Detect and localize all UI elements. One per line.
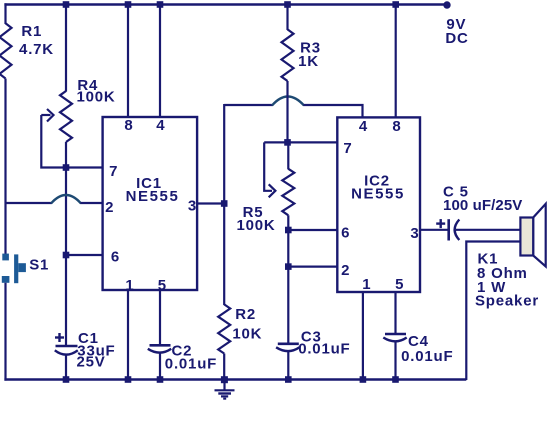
label R4 100K <box>76 77 115 106</box>
pushbutton S1 <box>2 254 26 284</box>
svg-text:2: 2 <box>105 199 113 216</box>
wire column down from pin7 node <box>65 168 67 255</box>
wire hop over R4 column <box>51 195 81 204</box>
label R2 10K <box>232 306 262 343</box>
node junction top rail at R4 <box>63 1 70 8</box>
svg-text:100 uF/25V: 100 uF/25V <box>443 197 522 214</box>
wire IC2 pin 8 column <box>395 5 397 118</box>
wire IC2 pin 1 column <box>362 292 364 380</box>
wiper arrow R5 <box>264 142 275 197</box>
wire IC2 pin 7 <box>264 141 337 143</box>
svg-text:1: 1 <box>125 277 133 294</box>
svg-text:8: 8 <box>392 118 400 135</box>
svg-text:Speaker: Speaker <box>475 293 539 310</box>
svg-text:6: 6 <box>111 249 119 266</box>
node junction top rail IC1 pin4 <box>157 1 164 8</box>
svg-text:2: 2 <box>341 262 349 279</box>
label R3 1K <box>298 39 321 70</box>
wire IC1 pin 6 <box>66 254 103 256</box>
node junction bottom rail C1 <box>63 376 70 383</box>
label C4 0.01uF <box>401 333 453 365</box>
svg-text:S1: S1 <box>29 256 49 273</box>
wire across to IC2 pin4 left part <box>224 104 272 106</box>
label C3 0.01uF <box>298 329 350 358</box>
svg-text:R2: R2 <box>235 306 256 323</box>
wire top power rail <box>4 3 447 5</box>
wire left rail lower segment <box>4 283 6 381</box>
wire IC2 pin 3 <box>420 229 448 231</box>
capacitor C3 <box>276 344 299 380</box>
node junction bottom rail C2 <box>157 376 164 383</box>
wire across to IC2 pin4 right part <box>304 105 363 117</box>
node junction pin6 column <box>63 252 70 259</box>
node junction top rail R3 <box>284 1 291 8</box>
wire R2 bottom <box>223 354 225 381</box>
svg-text:3: 3 <box>188 197 196 214</box>
label K1 8 Ohm 1W Speaker <box>475 251 539 310</box>
wire C3 column <box>287 267 289 344</box>
wire R5 top <box>287 142 289 169</box>
svg-text:0.01uF: 0.01uF <box>165 356 217 373</box>
svg-text:DC: DC <box>445 30 468 47</box>
op-amp IC1 NE555 box <box>103 117 198 290</box>
wire bottom ground rail <box>4 378 466 380</box>
op-amp IC2 NE555 box <box>337 117 420 292</box>
resistor R1 <box>0 23 12 78</box>
wire pin3 node up <box>223 104 225 204</box>
label IC2 NE555 <box>351 172 405 202</box>
wire IC1 pin 2 right part <box>81 202 103 204</box>
node 9V supply terminal <box>443 1 450 8</box>
svg-text:5: 5 <box>395 276 403 293</box>
label C5 plus <box>436 219 445 228</box>
wire speaker return <box>466 242 520 381</box>
node junction R5 pin6 <box>285 227 292 234</box>
svg-text:1K: 1K <box>298 53 319 70</box>
resistor R3 <box>282 29 294 81</box>
label C1 plus <box>55 333 64 342</box>
wire IC2 pin 6 <box>288 229 337 231</box>
node junction R3 R5 pin7 <box>284 139 291 146</box>
svg-text:10K: 10K <box>232 326 262 343</box>
wire IC1 pin 7 <box>66 166 103 168</box>
speaker K1 <box>520 204 545 267</box>
label IC2 pin numbers <box>341 118 419 293</box>
wire IC2 pin 2 <box>288 266 337 268</box>
wire IC1 pin 4 column <box>159 5 161 118</box>
wire IC2 pin 5 column <box>394 292 396 334</box>
node junction pin3 R2 <box>221 200 228 207</box>
node junction bottom rail pin1 <box>125 376 132 383</box>
capacitor C2 <box>148 345 171 380</box>
label IC1 pin numbers <box>105 117 196 294</box>
node junction top rail IC2 pin8 <box>392 1 399 8</box>
svg-text:100K: 100K <box>76 88 115 105</box>
svg-text:25V: 25V <box>77 354 106 371</box>
capacitor C1 <box>55 346 78 380</box>
wire R4 top column <box>65 5 67 92</box>
svg-text:0.01uF: 0.01uF <box>401 348 453 365</box>
svg-text:6: 6 <box>341 225 349 242</box>
label IC1 NE555 <box>126 175 180 205</box>
capacitor C5 <box>449 219 460 240</box>
node junction bottom rail ground <box>221 376 228 383</box>
node junction R4 wiper pin7 <box>63 164 70 171</box>
label R1 4.7K <box>19 23 54 58</box>
node junction bottom rail C4 <box>392 376 399 383</box>
svg-text:7: 7 <box>343 140 351 157</box>
wire IC1 pin 3 <box>197 202 225 204</box>
wire left rail middle segment <box>4 79 6 255</box>
label C2 0.01uF <box>165 342 217 372</box>
svg-text:4: 4 <box>359 118 368 135</box>
svg-text:1: 1 <box>362 276 370 293</box>
svg-text:8: 8 <box>124 117 132 134</box>
label R5 100K <box>236 204 275 234</box>
wire R2 column <box>223 204 225 306</box>
svg-text:NE555: NE555 <box>126 188 180 205</box>
svg-text:R1: R1 <box>21 23 42 40</box>
node junction bottom rail IC2 pin1 <box>360 376 367 383</box>
wire hop over R3 column <box>272 97 304 106</box>
wire IC1 pin 1 column <box>127 290 129 380</box>
wire C5 to speaker <box>456 229 521 231</box>
potentiometer R4 <box>60 91 72 142</box>
wire column pin6 to pin2 <box>287 230 289 267</box>
wire R3 top column <box>286 5 288 31</box>
wire C1 column <box>65 255 67 346</box>
wire IC1 pin 8 column <box>127 5 129 118</box>
ground symbol <box>215 380 235 399</box>
svg-text:4: 4 <box>156 117 165 134</box>
wire R4 bottom to node <box>65 142 67 168</box>
svg-text:4.7K: 4.7K <box>19 41 54 58</box>
potentiometer R5 <box>282 169 294 216</box>
node junction top rail IC1 pin8 <box>125 1 132 8</box>
wire IC1 pin 5 column <box>159 290 161 345</box>
capacitor C4 <box>383 334 406 380</box>
label C1 33uF 25V <box>77 330 116 371</box>
wire IC1 pin 2 left part <box>6 202 52 204</box>
svg-text:7: 7 <box>109 163 117 180</box>
wiper arrow R4 <box>41 109 64 168</box>
wire R5 bottom <box>287 215 289 231</box>
node junction bottom rail C3 <box>285 376 292 383</box>
svg-text:100K: 100K <box>236 217 275 234</box>
wire left rail upper segment <box>4 3 6 24</box>
resistor R2 <box>218 304 230 353</box>
svg-text:3: 3 <box>410 225 418 242</box>
label C5 100uF/25V <box>443 183 522 214</box>
wire R3 bottom column <box>286 81 288 143</box>
node junction pin2 C3 <box>285 263 292 270</box>
label 9V DC <box>445 16 468 47</box>
svg-text:NE555: NE555 <box>351 185 405 202</box>
svg-text:0.01uF: 0.01uF <box>298 340 350 357</box>
